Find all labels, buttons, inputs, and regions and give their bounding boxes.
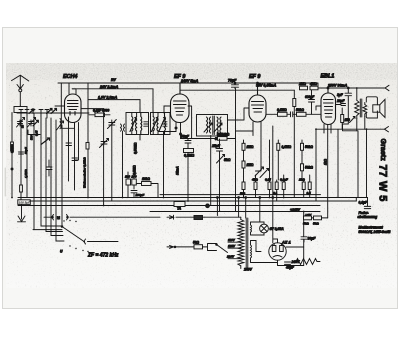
svg-text:2kΩ: 2kΩ [298, 178, 305, 182]
capacitor 0.1uF right [359, 198, 371, 209]
svg-text:50Ω: 50Ω [193, 241, 200, 245]
resistor 1.5M vertical box [20, 185, 23, 192]
wire ECH4 screen to rail2 [72, 89, 76, 94]
svg-text:1kΩ: 1kΩ [323, 158, 327, 165]
label 85mA rotated [176, 166, 180, 175]
resistor pair mid cluster [125, 172, 137, 198]
bus line B3 [18, 205, 320, 207]
trimmer dark pair on row [29, 109, 57, 114]
oscillator coil variable [57, 119, 64, 131]
svg-text:500: 500 [30, 135, 34, 140]
label 1k rotated [323, 158, 327, 165]
trimmer stubs extra [39, 110, 49, 119]
svg-text:EBL1: EBL1 [321, 74, 335, 80]
wire x338 down [337, 129, 339, 197]
wire vertical x294.3 [293, 90, 295, 197]
capacitor mid-left [46, 160, 52, 176]
capacitor chain y114 [287, 112, 297, 117]
potentiometer 50/10k box [217, 133, 230, 141]
capacitor 40uF [285, 262, 295, 270]
wire bus join right [355, 198, 357, 202]
svg-text:2MΩ: 2MΩ [298, 82, 306, 86]
scanned paper area [6, 63, 397, 288]
bus line B4 [150, 211, 320, 213]
label rotated 500 [30, 135, 34, 140]
resistor chain y114 box2 [296, 108, 321, 116]
IF transformer 1 [126, 113, 149, 135]
capacitor col4 [72, 158, 78, 161]
wire left column 2 [20, 113, 22, 201]
wire mid horizontal y138.5 [181, 138, 236, 140]
capacitor 50uF [181, 135, 191, 149]
capacitor on rail x235 [232, 82, 239, 88]
svg-text:0,1μF: 0,1μF [280, 178, 288, 182]
wire vertical x272.8 [272, 126, 274, 198]
top rail 2 [72, 89, 153, 113]
resistor vertical 0.1M c [277, 140, 292, 180]
svg-text:50Ω: 50Ω [313, 222, 319, 226]
mains plug box [194, 216, 241, 220]
tube EBL1 [321, 87, 336, 124]
svg-text:30μF: 30μF [308, 237, 317, 241]
bus line B0 [160, 194, 321, 196]
wire ECH4 grid stub left [55, 105, 65, 107]
svg-text:30: 30 [21, 124, 25, 128]
junction dot bus [206, 204, 210, 208]
wire EF9 screen stub [188, 106, 192, 139]
svg-text:4kΩ: 4kΩ [251, 178, 258, 182]
text instrument note [359, 225, 392, 234]
svg-text:EF 9: EF 9 [249, 74, 260, 80]
label rotated 30 [21, 124, 25, 128]
trimmer row top [17, 110, 89, 114]
wire drops to psu [217, 197, 278, 243]
resistor boxes psu top [303, 216, 328, 226]
wire left column 3 [26, 113, 28, 198]
resistor 10k box mid [136, 177, 158, 198]
switch contact arrow mid1 [167, 215, 194, 219]
svg-text:50kΩ: 50kΩ [305, 166, 313, 170]
bus line B2 [30, 200, 356, 202]
svg-text:100: 100 [125, 175, 130, 179]
power transformer core [246, 218, 248, 268]
svg-text:77 W 5: 77 W 5 [377, 165, 389, 202]
wire speaker column down [357, 119, 358, 198]
IF transformer 2 [197, 115, 228, 142]
resistor row r7 [307, 175, 312, 198]
tube EF9 second [249, 83, 266, 122]
svg-text:0,1MΩ: 0,1MΩ [277, 108, 287, 112]
wire EF9-2 cathode [236, 89, 254, 212]
wire AZ1 bottom [269, 260, 304, 265]
pilot lamp [258, 222, 268, 235]
resistor vertical 50k b [301, 164, 314, 180]
oscillator coil labels block [34, 113, 56, 241]
label rotated 0,05 [35, 130, 39, 136]
svg-text:TA: TA [177, 207, 182, 211]
wire ECH4 anode to rail [68, 83, 70, 94]
rectifier winding loop [251, 241, 270, 263]
svg-text:0,05: 0,05 [35, 130, 39, 136]
svg-text:0,25: 0,25 [265, 178, 271, 182]
resistor row r6 [298, 178, 305, 198]
resistor vertical x294 upper [293, 99, 296, 107]
wire x366.5 down to cap [366, 129, 368, 197]
svg-text:ECH4: ECH4 [63, 74, 77, 80]
wire speaker bottom line [316, 128, 385, 130]
svg-text:Graetz: Graetz [379, 139, 388, 162]
svg-text:50kΩ: 50kΩ [305, 145, 313, 149]
svg-text:220V: 220V [226, 255, 235, 259]
capacitor 100pF mid [131, 191, 144, 198]
svg-text:0,5MΩ: 0,5MΩ [133, 165, 137, 175]
svg-text:Meßinstrument: Meßinstrument [359, 225, 384, 229]
tube AZ1 [269, 239, 286, 260]
ground [18, 200, 31, 222]
voltage taps [226, 238, 253, 272]
label rotated wellenschalter [83, 157, 87, 188]
svg-text:20pF: 20pF [336, 99, 345, 103]
antenna coil box [14, 106, 27, 113]
wire vertical x303.7 psu [303, 212, 305, 266]
resistor boxes on rail y88 [298, 82, 318, 90]
svg-text:78μF: 78μF [228, 79, 237, 83]
wire EF9-2 pins [253, 82, 261, 171]
svg-text:0,56MΩ: 0,56MΩ [134, 142, 138, 154]
resistor row r3 [265, 140, 271, 198]
svg-text:85mA: 85mA [176, 166, 180, 175]
bus line B1 [18, 197, 368, 199]
wire IFT2 to EF9-2 grid [228, 108, 250, 120]
label 20pF [336, 99, 346, 106]
top rail 3 [88, 100, 140, 113]
voltage selector bracket [203, 244, 217, 251]
output terminal top [385, 85, 389, 90]
svg-text:ZF = 472 kHz: ZF = 472 kHz [87, 253, 119, 259]
output terminal bottom [385, 127, 389, 132]
svg-text:5000Ω/V, 24W-Gerät: 5000Ω/V, 24W-Gerät [359, 230, 392, 234]
wire ECH4 cathode loop [61, 83, 74, 128]
svg-text:5kΩ: 5kΩ [224, 158, 231, 162]
pickup jack TA box [174, 202, 185, 211]
resistor vertical 1M a [242, 140, 254, 161]
variable capacitor x104 [100, 139, 109, 148]
wire ECH4 side stub [81, 108, 104, 110]
heater winding loop [251, 222, 259, 235]
speaker [366, 97, 385, 118]
band switch staircase [33, 226, 64, 241]
svg-text:0,1μF 5000: 0,1μF 5000 [93, 109, 110, 113]
svg-text:50Ω: 50Ω [303, 222, 309, 226]
capacitor 3uF x348 [337, 87, 352, 100]
label rotated left1 [10, 144, 14, 153]
wire vertical x163.5 [163, 132, 165, 198]
tube ECH4 [65, 94, 82, 123]
resistor chain y114 box1 [266, 108, 287, 116]
svg-text:0,1μF: 0,1μF [359, 201, 369, 205]
svg-text:0,1MΩ: 0,1MΩ [282, 145, 292, 149]
svg-text:35V 0,65mA: 35V 0,65mA [256, 83, 277, 87]
wave switch M contact [44, 215, 160, 221]
svg-text:M: M [57, 216, 60, 220]
wire EBL1 pins [316, 106, 331, 218]
wire ECH4 extra pin [75, 123, 79, 161]
resistor row r1 [240, 182, 245, 198]
potentiometer 5k arrow [217, 155, 231, 212]
ECH4 grid wires down [62, 123, 75, 218]
trimmer dark lower [33, 120, 50, 144]
antenna [12, 75, 29, 106]
svg-text:Wellenschalter 0,25kΩ: Wellenschalter 0,25kΩ [83, 157, 87, 188]
wire vertical x122.5 [122, 131, 124, 198]
IFT2 trim arrows [204, 123, 222, 132]
svg-text:240V 5mA: 240V 5mA [180, 79, 199, 83]
svg-text:50kΩ: 50kΩ [296, 108, 304, 112]
wire vertical x111.8 [111, 120, 113, 201]
capacitor under ECH4 [66, 143, 72, 146]
wire EF9 pins down [175, 123, 182, 139]
coil small x122 [121, 124, 125, 131]
wire x316 speaker return [315, 129, 317, 201]
svg-text:100 5μF: 100 5μF [19, 201, 30, 205]
svg-text:25μF: 25μF [211, 144, 221, 148]
trimmer arrows mid [255, 167, 269, 178]
svg-text:0,5MΩ: 0,5MΩ [10, 144, 14, 153]
resistor 0.1uF 5000 box [89, 109, 110, 117]
resistor rotated 0.5M label2 [133, 165, 137, 175]
capacitor 30uF right [301, 237, 316, 243]
label rotated left3 [24, 169, 28, 178]
svg-text:125V: 125V [228, 244, 236, 248]
wire vertical x88 [87, 83, 89, 198]
wire left column 1 [11, 113, 13, 198]
resistor 0.3M box [184, 149, 195, 202]
svg-text:abstimmung: abstimmung [358, 215, 378, 219]
svg-text:40μF: 40μF [285, 266, 295, 270]
scan edge streak [4, 168, 6, 196]
resistor rotated 0.56M label [134, 142, 138, 154]
svg-text:50pF: 50pF [24, 147, 28, 154]
junction dots row [11, 87, 367, 212]
resistor vertical 1M b [242, 161, 254, 198]
fuse box 50ohm [193, 241, 203, 249]
wire bottom small loop [28, 130, 40, 135]
svg-text:1MΩ: 1MΩ [247, 163, 254, 167]
switch contact arrow mid2 [167, 245, 194, 248]
text radio tuning note [358, 211, 378, 219]
svg-text:+215V: +215V [290, 208, 301, 212]
svg-text:100pF: 100pF [136, 193, 145, 197]
svg-text:250V 36mA: 250V 36mA [327, 84, 348, 88]
svg-text:1,9V 2,9mA: 1,9V 2,9mA [98, 96, 118, 100]
capacitor 680pF x311 [305, 83, 315, 114]
resistor cathode EBL1 [341, 108, 350, 129]
capacitor 25uF [211, 139, 223, 156]
wire EF9 grid stub left [164, 106, 171, 113]
svg-text:4MΩ: 4MΩ [309, 82, 317, 86]
output transformer [355, 88, 367, 119]
svg-text:10kΩ: 10kΩ [142, 177, 150, 181]
power transformer primary [238, 217, 244, 268]
variable capacitor gang 1 [17, 118, 25, 128]
resistor row r4 [273, 180, 278, 201]
resistor on x88 [86, 143, 89, 150]
tube EF9 first [171, 83, 190, 123]
wire mid horizontal y131.5 [158, 131, 176, 133]
svg-text:1MΩ: 1MΩ [247, 145, 254, 149]
resistor left 0.5M vertical [11, 142, 14, 170]
svg-text:0,3MΩ: 0,3MΩ [184, 154, 195, 158]
switch contact dots [63, 220, 88, 252]
svg-text:680pF: 680pF [305, 95, 315, 99]
svg-text:200: 200 [131, 175, 137, 179]
switch lever 1 [61, 217, 118, 244]
svg-text:6V 0,65A: 6V 0,65A [270, 227, 285, 231]
svg-text:50/10kΩ: 50/10kΩ [217, 133, 230, 137]
variable capacitor x112 [108, 120, 117, 129]
svg-text:1,5MΩ: 1,5MΩ [24, 169, 28, 178]
resistor vertical 50k a [301, 140, 314, 164]
wire AZ1 cathode right [286, 246, 304, 248]
variable capacitor gang 2 [28, 118, 36, 128]
resistor row r2 [251, 175, 258, 198]
wire x364.8 down [364, 117, 366, 130]
wire vertical x210.7 [206, 136, 211, 208]
resistor row r5 [280, 175, 288, 198]
svg-text:50μF: 50μF [181, 135, 190, 139]
svg-text:150: 150 [345, 118, 351, 122]
svg-text:110V: 110V [228, 238, 236, 242]
capacitor left 50pF [19, 152, 24, 154]
label rotated left2 [24, 147, 28, 154]
svg-text:RV: RV [111, 78, 116, 82]
field coil [294, 259, 320, 265]
wire EF9 g [180, 89, 294, 91]
voltage selector lever [216, 244, 228, 253]
wire IFT1 bottoms [132, 108, 140, 140]
svg-text:26V 2,2mA: 26V 2,2mA [99, 85, 119, 89]
wire vertical x103.6 [103, 109, 105, 206]
wire drop transformer core [245, 197, 247, 218]
IF transformer 1b [151, 113, 171, 135]
top rail 1 [58, 83, 385, 88]
potentiometer tone arrow [343, 100, 359, 131]
svg-text:AZ 1: AZ 1 [281, 240, 291, 245]
